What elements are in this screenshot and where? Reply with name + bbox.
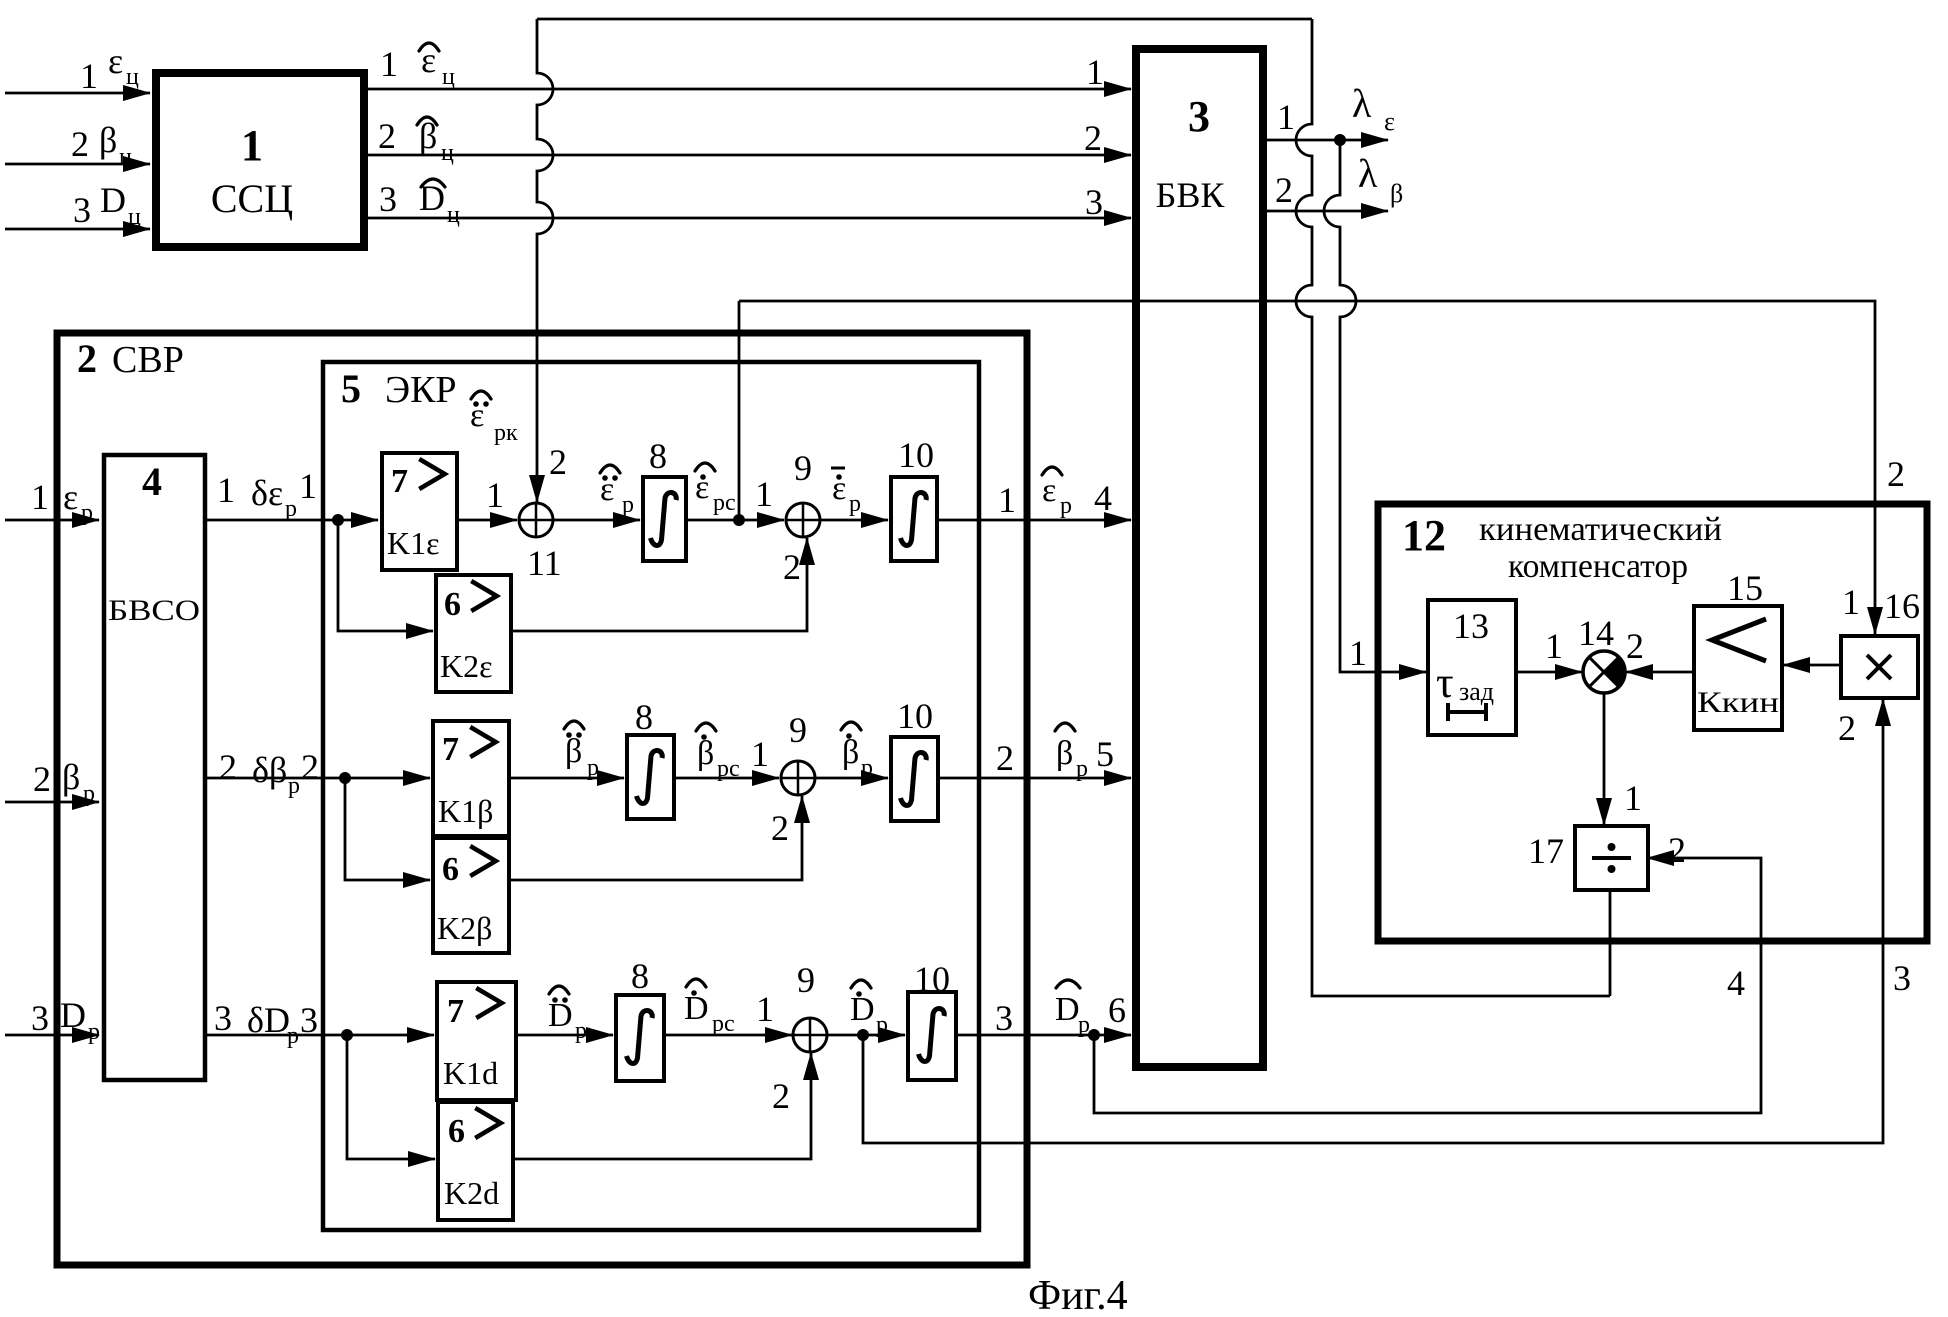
svg-text:р: р [575,1018,587,1044]
wire eps-hat_rs to multiplier 16 pin 1 [739,301,1875,634]
svg-text:1: 1 [998,480,1016,520]
svg-text:ССЦ: ССЦ [211,176,293,221]
wire output 1 eps-hat_ts to БВК pin 1 [368,88,1131,91]
svg-text:1: 1 [486,475,504,515]
label D-hatdot_rs [684,979,735,1037]
svg-text:2: 2 [1084,118,1102,158]
svg-text:1: 1 [1349,633,1367,673]
svg-text:3: 3 [995,998,1013,1038]
svg-text:2: 2 [378,116,396,156]
svg-text:2: 2 [772,1076,790,1116]
svg-text:D: D [1055,991,1080,1028]
svg-text:ц: ц [442,64,455,90]
label 2 СВР [77,336,184,381]
svg-text:δε: δε [251,473,283,513]
label компенсатор [1508,548,1688,585]
label 10 (eps row) [898,435,934,475]
svg-text:1: 1 [1545,626,1563,666]
svg-text:БВК: БВК [1156,175,1226,215]
wire input 1 epsilon_ts [5,92,150,95]
svg-text:1: 1 [217,470,235,510]
wire beta-hat_r to БВК pin 5 [938,777,1131,780]
wire K1beta to integrator 8beta [509,777,624,780]
block 13 tau_zad [1428,600,1516,735]
label 8 (eps row) [649,436,667,476]
wire multiplier 16 to block 15 [1783,664,1841,667]
svg-text:δD: δD [247,1000,290,1040]
wire lambda_eps branch vertical x1340 to block 13 [1324,140,1426,672]
summer 11 [519,503,553,537]
svg-text:2: 2 [1275,170,1293,210]
label 10 (beta row) [897,696,933,736]
svg-text:р: р [876,1012,888,1038]
svg-text:17: 17 [1528,831,1564,871]
svg-text:2: 2 [77,336,97,381]
svg-text:4: 4 [1727,963,1745,1003]
block 17 divider [1575,826,1648,890]
svg-text:9: 9 [789,710,807,750]
label pin 1 of block 13 [1349,633,1367,673]
label pin 2 / signal beta_ts [71,120,132,170]
label БВК output pin 2 [1275,170,1293,210]
wire D-hat_r to БВК pin 6 [956,1034,1131,1037]
svg-text:β: β [697,735,714,772]
svg-text:K1ε: K1ε [387,525,440,561]
svg-text:1: 1 [755,474,773,514]
label БВК input pin 2 [1084,118,1102,158]
label 2 delta-beta_r 2 [219,747,319,799]
label pin 1 of 16 / label 16 [1842,582,1920,626]
label 3 delta-D_r 3 [214,998,318,1049]
block 1 CCЦ [156,73,364,247]
svg-text:5: 5 [1096,734,1114,774]
wire return from divider 17 vertical x1312 with hops [1296,19,1610,996]
svg-text:3: 3 [31,998,49,1038]
label pin 1 of summer 11 [486,475,504,515]
svg-text:β: β [1390,179,1403,208]
label 1 delta-eps_r 1 [217,466,317,522]
svg-text:2: 2 [1668,830,1686,870]
svg-text:β: β [842,734,859,771]
svg-text:2: 2 [996,738,1014,778]
svg-text:р: р [622,492,634,518]
block 6 K2eps [436,575,511,692]
wire input 3 D_r [5,1034,99,1037]
wire input 1 eps_r [5,519,99,522]
svg-text:7: 7 [447,993,464,1030]
wire summer 9d to integrator 10d [827,1034,905,1037]
svg-text:ε: ε [1042,472,1056,509]
svg-text:2: 2 [783,547,801,587]
label pin 1 of divider 17 [1624,778,1642,818]
svg-text:1: 1 [1842,582,1860,622]
label eps-ddothat_r [600,465,634,518]
svg-text:4: 4 [1094,478,1112,518]
svg-text:р: р [88,1019,100,1045]
label 9 (beta row) [789,710,807,750]
svg-text:14: 14 [1578,613,1614,653]
block 6 K2d [438,1102,513,1220]
svg-text:1: 1 [756,989,774,1029]
wire input 2 beta_ts [5,163,150,166]
svg-text:β: β [99,120,117,160]
svg-text:1: 1 [1624,778,1642,818]
svg-text:δβ: δβ [252,750,287,790]
label БВК pin 6 [1108,990,1126,1030]
svg-text:1: 1 [380,44,398,84]
label БВК input pin 1 [1086,52,1104,92]
svg-text:3: 3 [300,1000,318,1040]
wire eps-hat_r to БВК pin 4 [937,519,1131,522]
svg-text:K1d: K1d [443,1055,498,1091]
wire eps-ddot_rk top horizontal [537,18,1312,21]
wire K2eps to summer 9eps pin 2 [511,538,807,631]
svg-text:K1β: K1β [438,793,493,829]
block 8 integrator eps [643,477,686,561]
svg-text:р: р [287,1023,299,1049]
label 9 (D row) [797,960,815,1000]
svg-text:ц: ц [128,204,141,230]
svg-text:β: β [62,757,80,797]
wire 4: D-hat_r to divider 17 pin 2 [1094,858,1761,1113]
svg-text:2: 2 [71,124,89,164]
wire БВК output 1 lambda_eps [1263,139,1388,142]
wire БВСО out 1 delta-eps to K1eps [205,519,378,522]
svg-text:6: 6 [442,851,459,888]
label 14 [1578,613,1614,653]
label beta-hatdot_rs [696,723,740,782]
svg-text:10: 10 [897,696,933,736]
svg-text:12: 12 [1402,511,1446,560]
label pin 1 of summer 9eps [755,474,773,514]
label БВК output pin 1 [1277,97,1295,137]
svg-text:р: р [861,755,873,781]
box 12 kinematic compensator [1378,504,1927,941]
caption Фиг.4 [1028,1273,1128,1317]
summer 9 beta [781,761,815,795]
svg-text:р: р [83,781,95,807]
svg-text:7: 7 [442,731,459,768]
block 6 K2beta [433,838,509,953]
svg-text:2: 2 [1838,708,1856,748]
svg-text:8: 8 [649,436,667,476]
svg-text:K2ε: K2ε [440,648,493,684]
svg-text:ц: ц [126,64,139,90]
label pin 2 of summer 9beta [771,808,789,848]
svg-text:2: 2 [219,747,237,787]
summer 9 d [793,1018,827,1052]
label 9 (eps row) [794,448,812,488]
wire summer 9beta to integrator 10beta [815,777,888,780]
label 5 ЭКР [341,366,457,411]
wire eps-ddot_rk vertical with hops into summer 11 [537,19,553,502]
svg-text:D: D [100,180,126,220]
wire 3: D-dot_r to multiplier 16 pin 2 [863,699,1883,1143]
svg-text:D: D [548,997,573,1034]
label wire 3 [1893,958,1911,998]
wire eps-hat_rs up [738,301,741,520]
svg-text:4: 4 [142,459,162,504]
label beta-hatdot_r [841,722,873,781]
svg-text:8: 8 [631,956,649,996]
svg-text:τ: τ [1436,658,1454,707]
label 12 [1402,511,1446,560]
svg-text:кинематический: кинематический [1479,511,1722,548]
node junction on lambda_eps [1334,134,1346,146]
label pin 2 of mixer 14 [1626,626,1644,666]
svg-text:5: 5 [341,366,361,411]
label D-ddothat_r [548,986,587,1044]
label lambda_beta [1358,151,1403,208]
svg-text:6: 6 [448,1113,465,1150]
svg-text:λ: λ [1358,151,1378,196]
svg-text:9: 9 [794,448,812,488]
label pin 3 / D_r [31,995,100,1045]
label eps-hat_r [1042,467,1072,519]
wire summer 11 to integrator 8eps [553,519,640,522]
label 15 [1727,568,1763,608]
label beta-ddothat_r [564,721,599,781]
svg-text:3: 3 [379,179,397,219]
svg-text:3: 3 [1893,958,1911,998]
block 7 K1beta [433,721,509,836]
wire mixer 14 to divider 17 pin 1 [1603,693,1606,825]
label 10 (D row) [914,959,950,999]
label D-hat_r [1055,980,1090,1038]
svg-text:компенсатор: компенсатор [1508,548,1688,585]
svg-text:16: 16 [1884,586,1920,626]
svg-text:β: β [565,733,582,770]
block 4 БВСО [104,455,205,1080]
svg-text:1: 1 [299,466,317,506]
wire K1d to integrator 8d [516,1034,613,1037]
svg-text:ц: ц [441,140,454,166]
svg-text:6: 6 [1108,990,1126,1030]
svg-text:р: р [587,755,599,781]
label pin 2 / beta-hat_ts [378,116,454,166]
label pin 2 / beta_r [33,757,95,807]
svg-text:1: 1 [80,56,98,96]
svg-text:р: р [288,773,300,799]
block 10 integrator eps [891,477,937,561]
node junction delta-D [341,1029,353,1041]
svg-text:2: 2 [1626,626,1644,666]
wire БВСО out 3 delta-D to K1d [205,1034,434,1037]
wire input 3 D_ts [5,228,150,231]
svg-text:D: D [684,990,709,1027]
label pin 2 of 16 [1838,708,1856,748]
svg-text:ε: ε [1384,107,1395,136]
label wire 4 [1727,963,1745,1003]
summer 9 eps [786,503,820,537]
wire int8beta to summer 9beta [674,777,779,780]
label 11 [527,543,562,583]
svg-text:СВР: СВР [112,339,184,381]
wire K2d to summer 9d pin 2 [513,1053,811,1159]
svg-text:р: р [849,491,861,517]
label БВК pin 5 [1096,734,1114,774]
svg-text:2: 2 [33,759,51,799]
svg-text:р: р [81,500,93,526]
svg-text:ε: ε [108,41,123,81]
svg-text:1: 1 [1086,52,1104,92]
label 8 (D row) [631,956,649,996]
svg-text:9: 9 [797,960,815,1000]
wire summer 9eps to integrator 10eps [820,519,888,522]
label pin 1 / eps-hat_ts [380,40,455,90]
svg-text:8: 8 [635,697,653,737]
wire output 2 beta-hat_ts to БВК pin 2 [368,154,1131,157]
block 10 integrator beta [891,737,938,821]
wire БВСО out 2 delta-beta to K1beta [205,777,430,780]
svg-text:2: 2 [549,442,567,482]
block 8 integrator beta [627,735,674,819]
svg-text:3: 3 [1188,92,1210,141]
svg-text:рк: рк [494,420,518,446]
wire input 2 beta_r [5,801,99,804]
label pin 1 / signal epsilon_ts [80,41,139,96]
svg-text:λ: λ [1352,81,1372,126]
label pin 1 of summer 9beta [751,734,769,774]
label pin 2 (exit ЭКР beta) [996,738,1014,778]
svg-text:р: р [1076,756,1088,782]
wire K2beta to summer 9beta pin 2 [509,796,802,880]
svg-text:Фиг.4: Фиг.4 [1028,1273,1128,1317]
svg-text:БВСО: БВСО [108,594,200,627]
svg-text:ц: ц [447,202,460,228]
svg-text:рс: рс [713,490,736,516]
label pin 1 of mixer 14 [1545,626,1563,666]
svg-text:6: 6 [444,586,461,623]
label pin 1 of summer 9d [756,989,774,1029]
mixer 14 (multiplier with filled sector) [1583,651,1625,693]
svg-text:ЭКР: ЭКР [385,369,457,411]
box 5 ЭКР [323,362,979,1230]
wire БВК output 2 lambda_beta [1263,210,1388,213]
label eps-bardot_r [831,468,861,517]
wire block 13 to mixer 14 [1516,671,1582,674]
svg-text:10: 10 [914,959,950,999]
label lambda_eps [1352,81,1395,136]
label pin 3 / signal D_ts [73,180,141,230]
label 8 (beta row) [635,697,653,737]
label БВК input pin 3 [1085,182,1103,222]
svg-text:рс: рс [712,1011,735,1037]
label pin 2 of summer 9eps [783,547,801,587]
svg-text:рс: рс [717,756,740,782]
block 16 multiplier [1841,636,1918,698]
wire branch to K2beta [345,778,430,880]
svg-text:11: 11 [527,543,562,583]
svg-text:3: 3 [73,190,91,230]
wire int8d to summer 9d [664,1034,792,1037]
label eps-hatdot_rs [695,463,736,516]
wire branch to K2eps [338,520,433,631]
wire int8eps to summer 9eps [686,519,784,522]
block 15 Kkin [1694,606,1782,730]
svg-text:ε: ε [63,477,78,517]
block 3 БВК [1136,49,1263,1067]
svg-text:D: D [60,995,86,1035]
label pin 3 / D-hat_ts [379,178,460,228]
block 7 K1eps [382,453,457,570]
label кинематический [1479,511,1722,548]
label pin 2 of divider 17 [1668,830,1686,870]
label pin 1 / eps_r [31,477,93,526]
node junction D-dot_r [857,1029,869,1041]
svg-text:2: 2 [301,747,319,787]
svg-text:Ккин: Ккин [1697,686,1779,719]
box 2 СВР [57,333,1027,1265]
label D-hatdot_r [850,980,888,1038]
svg-text:1: 1 [751,734,769,774]
block 10 integrator d [908,992,956,1080]
svg-text:1: 1 [31,477,49,517]
wire branch to K2d [347,1035,435,1159]
label pin 3 (exit ЭКР D) [995,998,1013,1038]
wire output 3 D-hat_ts to БВК pin 3 [368,217,1131,220]
label pin 2 of summer 11 [549,442,567,482]
label eps-ddot_rk [470,391,518,446]
block 7 K1d [437,982,516,1100]
svg-text:13: 13 [1453,606,1489,646]
svg-text:3: 3 [214,998,232,1038]
node junction delta-beta [339,772,351,784]
svg-text:10: 10 [898,435,934,475]
svg-text:K2β: K2β [437,910,492,946]
label wire 2 at right edge [1887,454,1905,494]
label pin 2 of summer 9d [772,1076,790,1116]
svg-text:15: 15 [1727,568,1763,608]
svg-text:β: β [1056,735,1073,772]
svg-text:7: 7 [391,463,408,500]
svg-text:р: р [1060,493,1072,519]
node junction delta-eps [332,514,344,526]
svg-text:2: 2 [771,808,789,848]
wire K1eps to summer 11 [457,519,517,522]
label pin 1 (exit ЭКР eps) [998,480,1016,520]
svg-text:р: р [1078,1012,1090,1038]
svg-text:K2d: K2d [444,1175,499,1211]
svg-text:1: 1 [241,121,263,170]
svg-text:р: р [285,496,297,522]
label БВК pin 4 [1094,478,1112,518]
svg-text:3: 3 [1085,182,1103,222]
wire divider 17 output down [1609,890,1612,996]
label beta-hat_r [1055,723,1088,782]
block 8 integrator d [616,995,664,1081]
svg-text:ц: ц [119,144,132,170]
svg-text:зад: зад [1459,677,1494,706]
node junction D-hat_r [1088,1029,1100,1041]
label 17 [1528,831,1564,871]
node junction eps-hat_rs [733,514,745,526]
svg-text:2: 2 [1887,454,1905,494]
svg-text:D: D [850,991,875,1028]
wire block 15 to mixer 14 pin 2 [1626,671,1694,674]
svg-text:1: 1 [1277,97,1295,137]
